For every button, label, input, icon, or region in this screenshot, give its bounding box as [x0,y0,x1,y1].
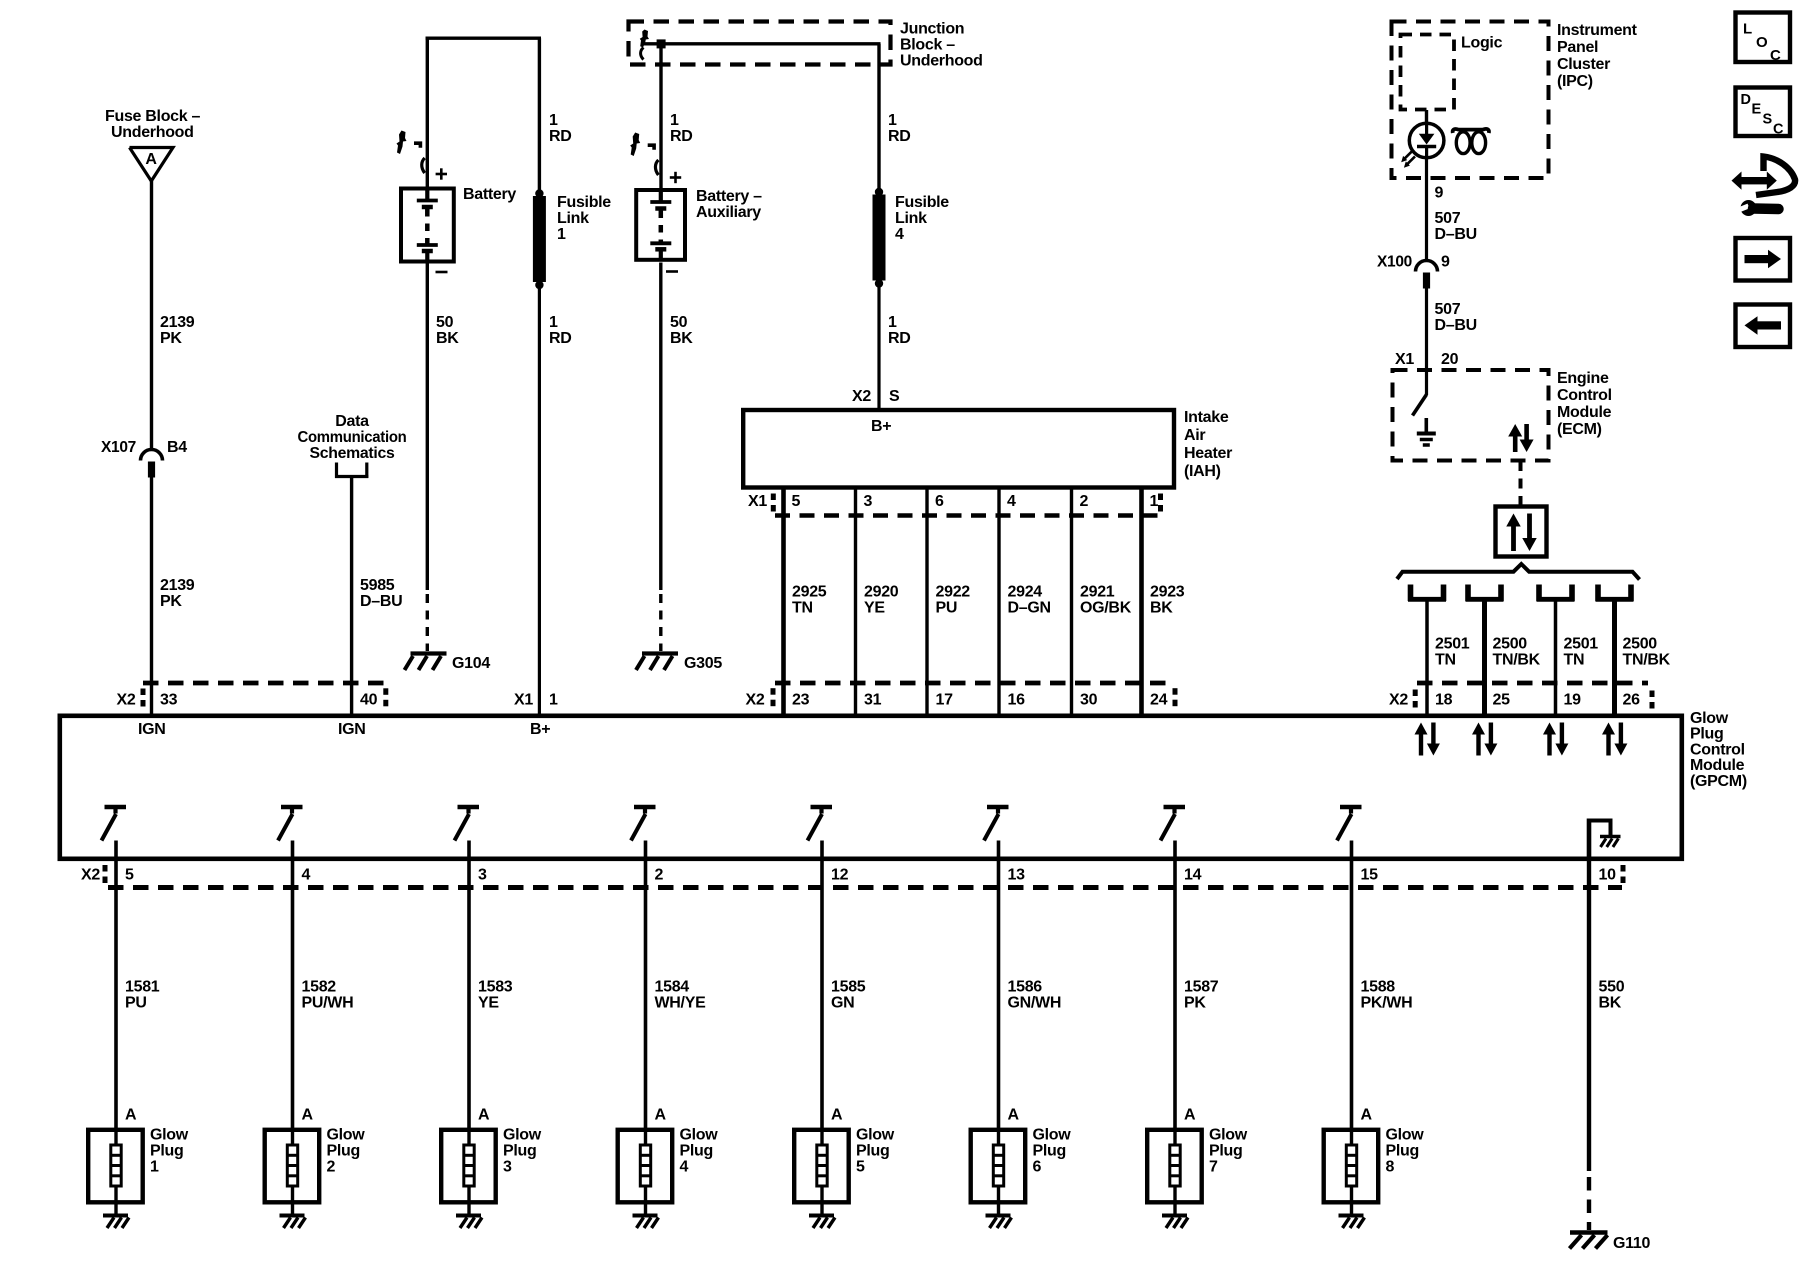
wire junction block to fusible link 4 [877,44,880,192]
svg-text:PK: PK [160,593,182,610]
ground below glow plug 3 [456,1202,482,1228]
svg-text:GN/WH: GN/WH [1008,995,1062,1012]
svg-text:18: 18 [1435,692,1453,709]
svg-text:1: 1 [549,314,558,331]
svg-text:C: C [1770,47,1781,64]
svg-text:O: O [1756,34,1768,51]
output driver switch (glow plug 2) [278,807,303,841]
wire serial data to GPCM pin 18 [1425,601,1429,715]
svg-text:2920: 2920 [864,584,899,601]
svg-text:15: 15 [1361,867,1379,884]
svg-text:A: A [655,1107,667,1124]
wire battery B1 negative to G104 [426,264,429,652]
wire IAH pin 5 to GPCM pin 23 [781,487,786,715]
node X2 pin S (IAH) [852,388,900,405]
junction block labels [900,21,983,70]
svg-text:Logic: Logic [1461,35,1503,52]
wire IAH pin 2 to GPCM pin 30 [1070,487,1073,715]
svg-text:Link: Link [557,210,589,227]
svg-text:5985: 5985 [360,577,395,594]
svg-text:5: 5 [125,867,134,884]
svg-text:G110: G110 [1613,1235,1650,1252]
svg-text:1583: 1583 [478,979,513,996]
glow plug 5 [794,1127,895,1205]
label 2139 PK upper [160,314,195,347]
glow plug 8 pin A label [1361,1107,1373,1124]
forward arrow navigation icon [1736,238,1791,281]
wire IAH pin 4 to GPCM pin 16 [997,487,1000,715]
svg-text:7: 7 [1209,1159,1218,1176]
svg-text:550: 550 [1599,979,1625,996]
wire GPCM pin 15 to glow plug 8 [1350,841,1354,1130]
glow plug 3 pin A label [478,1107,490,1124]
ground inside ECM [1417,418,1436,445]
svg-text:BK: BK [670,330,693,347]
svg-text:Intake: Intake [1184,409,1229,426]
svg-text:L: L [1743,21,1752,38]
ground below glow plug 7 [1162,1202,1188,1228]
label 2139 PK lower [160,577,195,610]
svg-text:B4: B4 [167,439,187,456]
svg-text:B+: B+ [530,721,550,738]
glow plug 7 pin A label [1184,1107,1196,1124]
glow plug 1 pin A label [125,1107,137,1124]
ground G104 [405,654,491,673]
node pin 40 [360,688,388,708]
IAH connector X1 row [748,493,1163,516]
svg-text:25: 25 [1493,692,1511,709]
svg-text:PK/WH: PK/WH [1361,995,1413,1012]
svg-text:D–BU: D–BU [1435,226,1477,243]
connector fork (pin 26 branch) [1596,585,1634,602]
label 2501 TN [1564,636,1599,669]
svg-text:X100: X100 [1377,254,1412,271]
telltale glasses symbol [1453,129,1489,154]
IAH label [1184,409,1232,480]
svg-text:(IPC): (IPC) [1557,73,1593,90]
output driver switch (glow plug 3) [455,807,480,841]
svg-text:Panel: Panel [1557,39,1598,56]
svg-text:A: A [125,1107,137,1124]
svg-text:Instrument: Instrument [1557,22,1638,39]
connector X100 pin 9 [1377,254,1450,289]
svg-text:50: 50 [436,314,454,331]
wire data link to GPCM pin 40 [350,478,353,715]
GPCM internal ground (pin 10) [1587,819,1621,859]
svg-text:4: 4 [680,1159,689,1176]
GPCM pin 26 label [1623,692,1641,709]
svg-text:Plug: Plug [327,1143,360,1160]
svg-text:2922: 2922 [936,584,971,601]
svg-text:Glow: Glow [1690,710,1729,727]
IPC pin 9 label [1435,185,1444,202]
svg-text:1: 1 [888,314,897,331]
svg-text:E: E [1752,102,1762,118]
battery B1 [401,168,516,272]
dashed wire ECM to serial data symbol [1519,461,1523,506]
label 50 BK (battery B1) [436,314,459,347]
svg-text:1: 1 [549,112,558,129]
wire battery aux negative to G305 [659,263,662,652]
svg-text:24: 24 [1150,692,1168,709]
svg-text:2500: 2500 [1623,636,1658,653]
svg-text:10: 10 [1599,867,1617,884]
connector fork (pin 18 branch) [1408,585,1446,602]
svg-text:PU: PU [125,995,147,1012]
IAH pin 5 label [792,493,801,510]
GPCM pin 2 label [655,867,664,884]
svg-text:Underhood: Underhood [111,124,194,141]
svg-text:IGN: IGN [138,721,166,738]
label 507 D-BU (lower) [1435,301,1477,334]
svg-text:Plug: Plug [503,1143,536,1160]
wire fusible link 4 to IAH pin S [877,286,880,410]
svg-text:G104: G104 [452,655,490,672]
svg-text:TN: TN [1435,652,1456,669]
svg-text:TN/BK: TN/BK [1623,652,1671,669]
ground below glow plug 8 [1339,1202,1365,1228]
wire serial data to GPCM pin 19 [1554,601,1558,715]
svg-text:Data: Data [335,413,369,430]
GPCM pin 25 label [1493,692,1511,709]
svg-text:1: 1 [549,692,558,709]
glow plug 8 [1324,1127,1425,1205]
GPCM connector X2 row (serial data pins) [1389,690,1654,709]
glow plug 7 [1147,1127,1248,1205]
label 2500 TN/BK [1623,636,1671,669]
label 5985 D-BU [360,577,402,610]
svg-text:X2: X2 [852,388,871,405]
svg-text:RD: RD [888,128,911,145]
harness/wrench navigation icon [1732,157,1796,217]
wire fusible link 1 to GPCM pin 1 [538,288,541,715]
svg-text:13: 13 [1008,867,1026,884]
output driver switch (glow plug 6) [984,807,1009,841]
svg-text:Fuse Block –: Fuse Block – [105,108,201,125]
output driver switch (glow plug 4) [631,807,656,841]
dashed connector line GPCM top row [143,681,1648,686]
svg-text:YE: YE [864,600,885,617]
net IGN label (pin 40) [338,721,366,738]
junction node (battery aux tap) [657,39,666,48]
serial data arrow pairs inside GPCM [1415,723,1440,756]
GPCM pin 10 label [1599,865,1626,884]
svg-text:Battery: Battery [463,186,516,203]
svg-text:IGN: IGN [338,721,366,738]
svg-text:TN: TN [792,600,813,617]
svg-text:16: 16 [1008,692,1026,709]
svg-text:GN: GN [831,995,854,1012]
svg-text:X1: X1 [748,493,767,510]
svg-text:Plug: Plug [1386,1143,1419,1160]
svg-text:2: 2 [1080,493,1089,510]
node X1 pin 1 [514,692,558,709]
svg-text:2923: 2923 [1150,584,1185,601]
svg-text:A: A [1361,1107,1373,1124]
output driver switch (glow plug 7) [1161,807,1186,841]
svg-text:C: C [1773,122,1784,138]
svg-text:A: A [145,151,157,168]
svg-text:Glow: Glow [150,1127,189,1144]
svg-text:A: A [831,1107,843,1124]
label 1588 PK/WH [1361,979,1413,1012]
wire battery B1 positive to fusible link 1 [426,37,541,195]
label 2924 D-GN [1008,584,1051,617]
battery B2 auxiliary [636,172,762,272]
svg-text:2921: 2921 [1080,584,1115,601]
svg-text:1: 1 [1150,493,1159,510]
svg-text:5: 5 [792,493,801,510]
svg-text:S: S [889,388,900,405]
svg-text:Plug: Plug [680,1143,713,1160]
wire indicator to X100 [1425,158,1428,262]
ground below glow plug 2 [280,1202,306,1228]
svg-text:Plug: Plug [150,1143,183,1160]
svg-text:A: A [1184,1107,1196,1124]
svg-text:17: 17 [936,692,954,709]
ground G305 [636,654,722,673]
wire GPCM pin 10 to G110 (550 BK) [1587,861,1591,1230]
switch inside ECM [1413,395,1427,416]
GPCM pin 16 label [1008,692,1026,709]
label 550 BK [1599,979,1625,1012]
svg-text:2925: 2925 [792,584,827,601]
bottom dashed connector line GPCM X2 [108,885,1622,890]
label 1 RD (below fusible link 4) [888,314,911,347]
clip symbol at junction block feed [640,30,649,60]
lamp emission arrows [1401,151,1415,168]
svg-text:Fusible: Fusible [557,194,611,211]
svg-text:20: 20 [1441,351,1459,368]
svg-text:X107: X107 [101,439,136,456]
glow plug 1 [88,1127,189,1205]
bottom connector X2 label [81,865,107,884]
svg-text:Plug: Plug [856,1143,889,1160]
wire junction block bus [642,42,881,45]
svg-text:1581: 1581 [125,979,160,996]
svg-text:19: 19 [1564,692,1582,709]
label 1582 PU/WH [302,979,354,1012]
svg-text:S: S [1763,112,1773,128]
label 2501 TN [1435,636,1470,669]
serial data arrows inside ECM [1508,424,1533,452]
svg-text:2139: 2139 [160,314,195,331]
svg-text:A: A [1008,1107,1020,1124]
output driver switch (glow plug 8) [1337,807,1362,841]
GPCM pin 24 label [1150,692,1168,709]
wire GPCM pin 4 to glow plug 2 [291,841,295,1130]
connector fork (pin 19 branch) [1537,585,1575,602]
glow plug 4 [618,1127,719,1205]
wire GPCM pin 14 to glow plug 7 [1173,841,1177,1130]
svg-text:14: 14 [1184,867,1202,884]
svg-text:2501: 2501 [1435,636,1470,653]
svg-text:A: A [478,1107,490,1124]
svg-text:Module: Module [1690,757,1745,774]
wire fuse block to X107 [150,181,153,450]
svg-text:Plug: Plug [1033,1143,1066,1160]
GPCM connector X2 row under IAH [746,688,1178,708]
DESC navigation icon [1736,88,1791,138]
svg-text:Block –: Block – [900,37,955,54]
svg-text:OG/BK: OG/BK [1080,600,1132,617]
svg-text:30: 30 [1080,692,1098,709]
svg-text:(GPCM): (GPCM) [1690,773,1747,790]
svg-text:1: 1 [888,112,897,129]
label 1 RD (below fusible link 1) [549,314,572,347]
svg-text:Plug: Plug [1209,1143,1242,1160]
svg-text:3: 3 [864,493,873,510]
svg-text:1586: 1586 [1008,979,1043,996]
svg-text:4: 4 [1007,493,1016,510]
svg-text:PU/WH: PU/WH [302,995,354,1012]
svg-text:5: 5 [856,1159,865,1176]
label 1 RD (above fusible link 1) [549,112,572,145]
label 2925 TN [792,584,827,617]
svg-text:40: 40 [360,692,378,709]
IPC label [1557,22,1638,90]
svg-text:TN: TN [1564,652,1585,669]
svg-text:50: 50 [670,314,688,331]
ECM label [1557,370,1612,438]
svg-text:RD: RD [549,330,572,347]
svg-text:Glow: Glow [327,1127,366,1144]
connector fork (pin 25 branch) [1466,585,1504,602]
wire GPCM pin 13 to glow plug 6 [997,841,1001,1130]
svg-text:507: 507 [1435,210,1461,227]
svg-text:Cluster: Cluster [1557,56,1610,73]
back arrow navigation icon [1736,305,1791,348]
svg-text:Engine: Engine [1557,370,1609,387]
svg-text:Glow: Glow [1033,1127,1072,1144]
svg-text:Underhood: Underhood [900,53,983,70]
serial data link symbol [1496,507,1547,557]
wire junction to battery aux positive [659,44,662,189]
svg-text:6: 6 [1033,1159,1042,1176]
GPCM pin 18 label [1435,692,1453,709]
GPCM pin 17 label [936,692,954,709]
net B+ label (GPCM) [530,721,550,738]
svg-text:A: A [302,1107,314,1124]
svg-text:31: 31 [864,692,882,709]
svg-text:(ECM): (ECM) [1557,421,1602,438]
label 2500 TN/BK [1493,636,1541,669]
wire logic to indicator [1425,110,1428,125]
IAH pin 2 label [1080,493,1089,510]
label 1587 PK [1184,979,1219,1012]
svg-text:PK: PK [1184,995,1206,1012]
GPCM pin 5 label [125,867,134,884]
svg-text:2500: 2500 [1493,636,1528,653]
svg-text:Battery –: Battery – [696,188,762,205]
svg-text:Glow: Glow [1386,1127,1425,1144]
svg-text:4: 4 [895,226,904,243]
svg-text:Air: Air [1184,427,1205,444]
svg-text:(IAH): (IAH) [1184,463,1221,480]
svg-text:Glow: Glow [856,1127,895,1144]
label 507 D-BU (upper) [1435,210,1477,243]
GPCM pin 12 label [831,867,849,884]
svg-text:Heater: Heater [1184,445,1232,462]
indicator lamp (wait-to-start) [1409,123,1444,158]
svg-text:YE: YE [478,995,499,1012]
svg-text:1588: 1588 [1361,979,1396,996]
logic box (dashed) [1401,35,1503,110]
svg-text:Fusible: Fusible [895,194,949,211]
ground below glow plug 5 [809,1202,835,1228]
svg-text:Link: Link [895,210,927,227]
wire IAH pin 1 to GPCM pin 24 [1139,487,1144,715]
GPCM pin 13 label [1008,867,1026,884]
wire IAH pin 6 to GPCM pin 17 [925,487,928,715]
engine control module (ECM) dashed box [1393,370,1549,461]
svg-text:26: 26 [1623,692,1641,709]
brace serial data to GPCM pins [1397,564,1640,580]
svg-text:2924: 2924 [1008,584,1043,601]
svg-text:RD: RD [549,128,572,145]
fuse block A (Fuse Block - Underhood) [105,108,201,181]
label 1 RD (battery aux) [670,112,693,145]
IAH pin 6 label [935,493,944,510]
GPCM pin 14 label [1184,867,1202,884]
IAH pin 3 label [864,493,873,510]
svg-text:BK: BK [1150,600,1173,617]
svg-text:Glow: Glow [1209,1127,1248,1144]
fusible link 4 [873,188,950,288]
svg-text:Module: Module [1557,404,1612,421]
svg-text:BK: BK [1599,995,1622,1012]
svg-text:Communication: Communication [298,429,407,446]
svg-text:2: 2 [655,867,664,884]
svg-text:Glow: Glow [680,1127,719,1144]
label 2923 BK [1150,584,1185,617]
svg-text:X2: X2 [81,867,100,884]
glow plug 6 [971,1127,1072,1205]
svg-text:Plug: Plug [1690,726,1723,743]
svg-text:PU: PU [936,600,958,617]
label 1 RD (above fusible link 4) [888,112,911,145]
svg-text:9: 9 [1435,185,1444,202]
svg-text:X2: X2 [117,692,136,709]
GPCM pin 3 label [478,867,487,884]
svg-text:1585: 1585 [831,979,866,996]
svg-text:B+: B+ [871,418,891,435]
intake air heater (IAH) box [743,410,1174,488]
svg-text:6: 6 [935,493,944,510]
label 50 BK (battery aux) [670,314,693,347]
svg-text:RD: RD [670,128,693,145]
node X2 pin 33 [117,689,178,709]
svg-text:2: 2 [327,1159,336,1176]
svg-text:1584: 1584 [655,979,690,996]
svg-text:3: 3 [478,867,487,884]
svg-text:507: 507 [1435,301,1461,318]
svg-text:X2: X2 [1389,692,1408,709]
wire X100 to ECM [1425,288,1428,395]
svg-text:D–GN: D–GN [1008,600,1051,617]
svg-text:TN/BK: TN/BK [1493,652,1541,669]
glow plug 5 pin A label [831,1107,843,1124]
svg-text:33: 33 [160,692,178,709]
wire serial data to GPCM pin 25 [1482,601,1487,715]
svg-text:X1: X1 [1395,351,1414,368]
svg-text:1: 1 [670,112,679,129]
ground G110 [1570,1233,1651,1253]
label 1584 WH/YE [655,979,707,1012]
wire GPCM pin 12 to glow plug 5 [820,841,824,1130]
svg-text:1: 1 [150,1159,159,1176]
output driver switch (glow plug 5) [808,807,833,841]
